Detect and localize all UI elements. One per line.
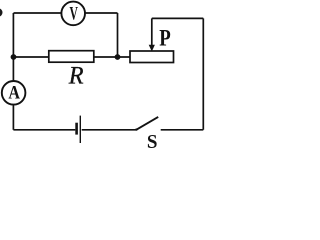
cut-off circled list number at left edge bbox=[0, 8, 3, 16]
resistor R body bbox=[49, 51, 94, 63]
node: junction dot at voltmeter drop bbox=[115, 54, 121, 60]
battery cell: long thin positive plate bbox=[79, 116, 81, 143]
node: junction dot left bbox=[11, 54, 17, 60]
wire: wiper top horizontal bbox=[152, 17, 204, 19]
svg-text:V: V bbox=[70, 4, 79, 25]
wiper arrowhead on rheostat P bbox=[149, 45, 155, 52]
voltmeter V1 bbox=[61, 2, 85, 26]
wire: vertical drop from voltmeter branch to node bbox=[117, 13, 119, 57]
svg-text:S: S bbox=[147, 132, 158, 151]
wire: top horizontal through voltmeter bbox=[14, 12, 118, 14]
wire: resistor branch horizontal bbox=[14, 56, 131, 58]
wire: wiper vertical lead bbox=[151, 18, 153, 45]
switch pivot dot bbox=[135, 128, 137, 130]
svg-text:A: A bbox=[8, 84, 20, 104]
rheostat P body bbox=[130, 51, 174, 63]
svg-text:R: R bbox=[68, 61, 84, 90]
wire: bottom horizontal switch to right corner bbox=[161, 129, 204, 131]
wire: left vertical (top corner to bottom corner) bbox=[12, 13, 14, 130]
wire: bottom horizontal battery to switch bbox=[82, 129, 137, 131]
svg-text:P: P bbox=[159, 26, 171, 52]
ammeter A1 bbox=[2, 81, 26, 105]
switch S lever bbox=[136, 117, 158, 130]
wire: right vertical bbox=[202, 18, 204, 129]
wire: bottom horizontal left segment to battery bbox=[13, 129, 75, 131]
battery cell: short thick negative plate bbox=[75, 123, 78, 135]
